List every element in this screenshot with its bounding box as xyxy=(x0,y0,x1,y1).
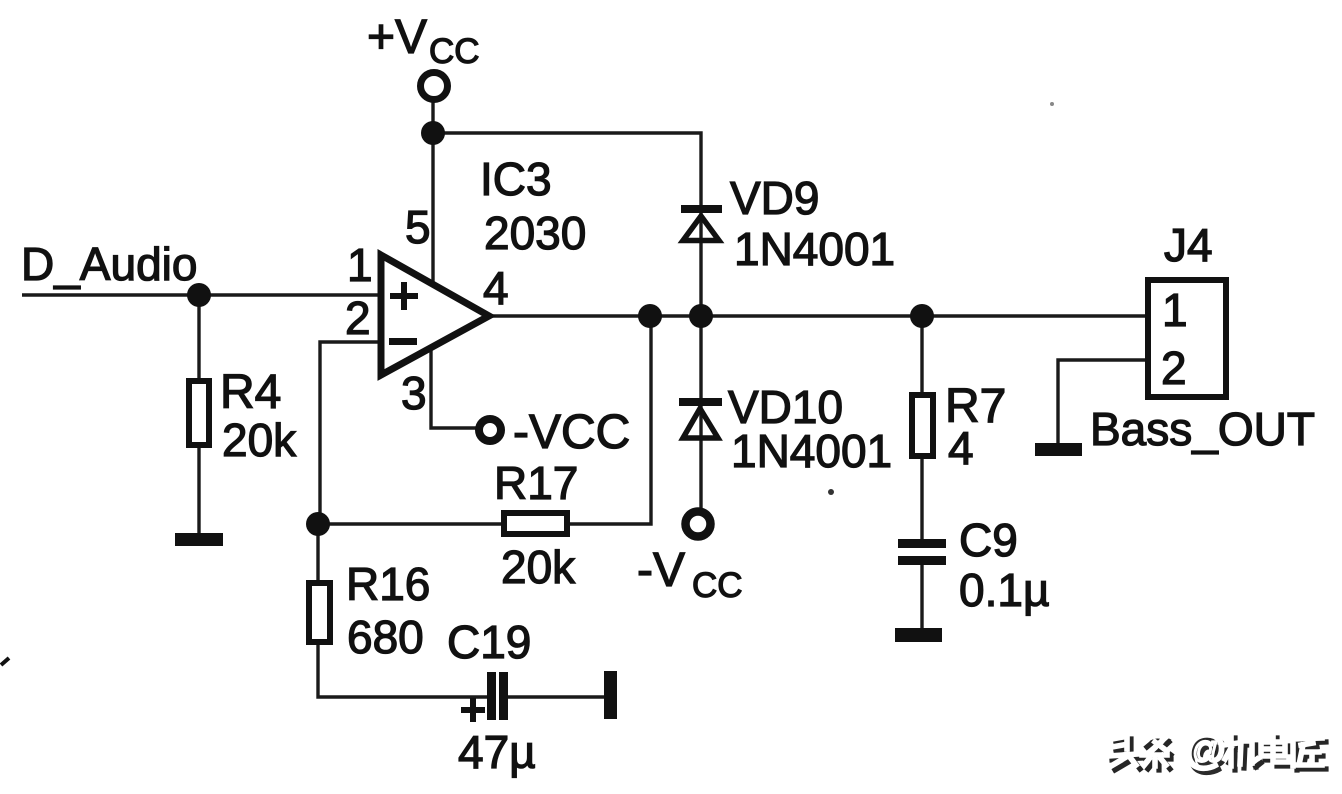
wire R4 to ground xyxy=(197,446,200,536)
svg-text:4: 4 xyxy=(483,262,509,314)
svg-text:1: 1 xyxy=(347,239,373,291)
ground at R4 xyxy=(175,533,223,546)
resistor R16 xyxy=(309,583,330,642)
svg-text:0.1µ: 0.1µ xyxy=(959,564,1049,616)
terminal -Vcc (below VD10) xyxy=(686,512,711,537)
diode VD9 xyxy=(681,205,722,241)
capacitor C19 plus mark xyxy=(461,698,485,722)
svg-text:2: 2 xyxy=(1161,342,1187,394)
resistor R17 xyxy=(504,513,567,534)
svg-text:2: 2 xyxy=(345,292,371,344)
ground at C9 xyxy=(895,628,942,642)
terminal -VCC (pin3) xyxy=(479,419,501,441)
svg-text:1N4001: 1N4001 xyxy=(734,223,895,275)
capacitor C9 plates xyxy=(898,539,946,565)
svg-text:680: 680 xyxy=(347,611,424,663)
svg-text:4: 4 xyxy=(948,422,974,474)
svg-text:-VCC: -VCC xyxy=(513,406,630,459)
wire R7 top xyxy=(920,316,923,392)
wire pin3 to -VCC terminal xyxy=(431,345,476,428)
node +Vcc junction xyxy=(421,121,445,145)
wire output rail xyxy=(489,314,1145,317)
wire top rail to VD9 xyxy=(433,133,701,316)
svg-text:C9: C9 xyxy=(959,514,1018,566)
wire R16 top xyxy=(316,524,319,581)
svg-text:CC: CC xyxy=(429,32,480,71)
op-amp plus symbol xyxy=(390,282,418,310)
wire feedback vertical xyxy=(570,316,651,524)
wire VD10 through to -Vcc terminal xyxy=(699,316,702,509)
svg-text:J4: J4 xyxy=(1164,219,1213,271)
stray scan mark left xyxy=(1,658,9,665)
op-amp minus symbol xyxy=(389,338,417,345)
op-amp U IC3 triangle xyxy=(381,255,489,375)
svg-text:20k: 20k xyxy=(501,541,576,593)
resistor R4 xyxy=(189,381,209,445)
svg-text:3: 3 xyxy=(401,367,427,419)
diode VD10 xyxy=(679,398,722,438)
svg-text:D_Audio: D_Audio xyxy=(21,238,197,290)
wire feedback to R16 node xyxy=(318,522,501,525)
node feedback junction at R16 xyxy=(306,512,330,536)
svg-text:R17: R17 xyxy=(494,457,578,509)
svg-text:1: 1 xyxy=(1162,284,1188,336)
ground at J4 pin2 xyxy=(1035,443,1082,456)
wire pin5 from +Vcc terminal xyxy=(431,100,434,284)
wire C9 to ground xyxy=(920,565,923,630)
wire J4 pin2 to ground xyxy=(1058,360,1145,445)
svg-text:C19: C19 xyxy=(447,616,531,668)
terminal bar at C19 xyxy=(604,671,617,719)
svg-text:R16: R16 xyxy=(346,558,430,610)
node R7 junction on output xyxy=(910,304,934,328)
svg-text:47µ: 47µ xyxy=(458,726,536,778)
node diode junction on output xyxy=(689,304,713,328)
svg-text:R4: R4 xyxy=(220,366,281,419)
svg-text:CC: CC xyxy=(692,566,743,605)
wire R4 top xyxy=(197,295,200,380)
resistor R7 xyxy=(912,395,933,456)
svg-text:-V: -V xyxy=(637,544,685,597)
wire C19 to terminal bar xyxy=(508,695,604,698)
node feedback junction on output xyxy=(638,304,662,328)
svg-text:Bass_OUT: Bass_OUT xyxy=(1090,403,1315,455)
svg-text:IC3: IC3 xyxy=(480,153,552,205)
connector J4 box xyxy=(1148,280,1226,397)
svg-text:@: @ xyxy=(1184,726,1227,773)
svg-text:2030: 2030 xyxy=(484,207,586,259)
svg-text:VD9: VD9 xyxy=(730,172,819,224)
svg-text:+V: +V xyxy=(367,11,427,64)
svg-text:5: 5 xyxy=(405,201,431,253)
svg-text:20k: 20k xyxy=(222,414,297,466)
wire inverting input xyxy=(320,342,382,524)
wire D_Audio input xyxy=(22,293,382,296)
terminal +Vcc xyxy=(421,73,448,100)
capacitor C19 plates xyxy=(487,672,508,720)
wire R16 to C19 xyxy=(318,645,487,697)
svg-text:1N4001: 1N4001 xyxy=(731,425,892,477)
stray scan dot xyxy=(828,489,834,495)
node input junction xyxy=(187,283,211,307)
wire R7 to C9 xyxy=(920,459,923,540)
